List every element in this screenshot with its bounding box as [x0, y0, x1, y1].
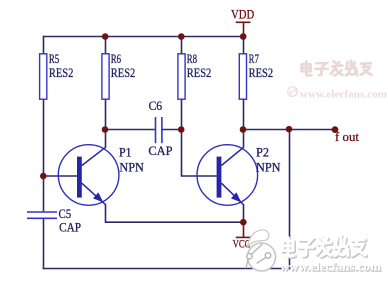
svg-text:P1: P1 — [119, 145, 132, 160]
resistor R5 — [40, 54, 47, 99]
wire P1 collector stub — [105, 130, 107, 148]
wire left rail upper — [43, 36, 45, 212]
svg-text:C6: C6 — [149, 98, 163, 113]
svg-text:RES2: RES2 — [187, 65, 212, 80]
svg-text:R7: R7 — [249, 51, 260, 66]
svg-text:VDD: VDD — [231, 6, 254, 21]
wire top VDD rail — [43, 36, 244, 38]
wire C6 right plate to R8 node — [162, 129, 182, 131]
capacitor C5 plates — [27, 211, 57, 213]
svg-text:R8: R8 — [187, 51, 197, 66]
transistor P2 — [197, 145, 258, 206]
wire left rail lower — [43, 219, 45, 269]
watermark CJK shadow layer — [284, 237, 367, 257]
wire f out — [244, 129, 336, 131]
junction top R6 — [102, 33, 109, 40]
wire P2 collector stub — [243, 130, 245, 148]
svg-text:CAP: CAP — [59, 220, 81, 235]
svg-text:P2: P2 — [256, 145, 269, 160]
junction f out / right rail — [286, 126, 293, 133]
wire middle node to C6 left plate — [106, 129, 156, 131]
svg-text:NPN: NPN — [119, 160, 144, 175]
svg-text:RES2: RES2 — [111, 65, 136, 80]
VDD power symbol — [236, 22, 251, 36]
junction top VDD — [240, 33, 247, 40]
junction top R8 — [178, 33, 185, 40]
VCC power symbol — [236, 222, 251, 237]
svg-text:RES2: RES2 — [249, 65, 274, 80]
svg-text:f out: f out — [335, 129, 359, 144]
wire R6 column — [105, 37, 107, 130]
junction mid R8 / C6 — [178, 126, 185, 133]
wire emitter bus — [106, 204, 244, 222]
watermark gear logo — [246, 230, 276, 271]
resistor R7 — [239, 54, 246, 99]
junction P1 base — [40, 173, 47, 180]
svg-text:www.elecfans.com: www.elecfans.com — [280, 262, 381, 274]
terminal dot f out — [332, 126, 339, 133]
faint upper-right watermark (red) — [288, 61, 388, 101]
wire right rail — [289, 129, 291, 269]
svg-text:CAP: CAP — [148, 143, 172, 158]
svg-text:NPN: NPN — [256, 160, 281, 175]
wire P1 base — [44, 175, 78, 177]
capacitor C6 plates — [155, 117, 157, 143]
svg-text:RES2: RES2 — [49, 65, 74, 80]
transistor P1 — [58, 145, 119, 206]
resistor R6 — [102, 54, 109, 99]
svg-text:R5: R5 — [49, 51, 59, 66]
wire R8 column — [181, 37, 183, 130]
svg-text:R6: R6 — [111, 51, 122, 66]
wire P2 emitter stub — [243, 204, 245, 222]
wire R8 node down to P2 base — [182, 130, 217, 177]
junction P2 emitter / VCC — [240, 219, 247, 226]
wire R7 column — [243, 37, 245, 130]
svg-text:www.elecfans.com: www.elecfans.com — [300, 90, 387, 101]
watermark CJK white core — [283, 236, 366, 256]
resistor R8 — [178, 54, 185, 99]
junction mid R6 / P1 collector — [102, 126, 109, 133]
wire bottom rail — [43, 268, 291, 270]
junction mid R7 / P2 collector — [240, 126, 247, 133]
